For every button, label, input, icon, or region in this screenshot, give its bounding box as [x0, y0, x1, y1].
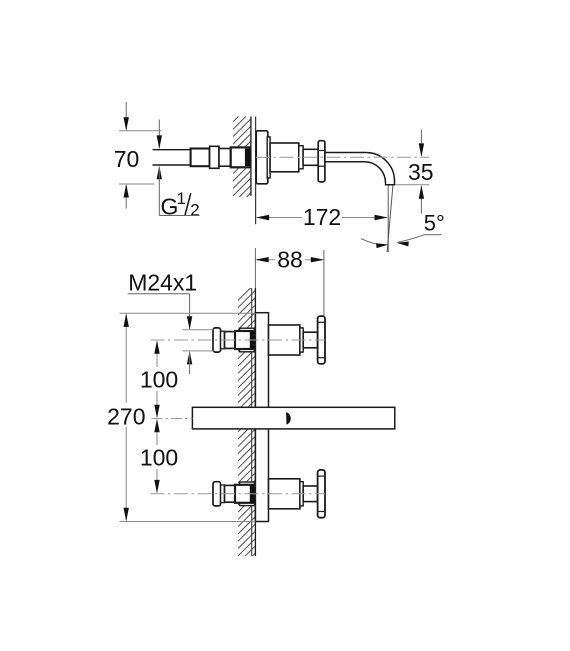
collar — [210, 146, 219, 168]
centerline spout bar — [152, 418, 193, 420]
dimension 35 arrows — [420, 130, 422, 156]
centerline bottom valve — [151, 493, 326, 495]
valve stem right — [303, 486, 317, 502]
dimension 70 extension lines — [119, 130, 162, 132]
100 upper dimension — [156, 342, 158, 368]
centerline top valve — [151, 339, 326, 341]
dimension 172 line — [257, 217, 302, 219]
spout body cylinder — [270, 143, 299, 172]
svg-text:270: 270 — [107, 404, 145, 430]
valve olive flange — [213, 482, 221, 506]
valve stub washer cy=493.8 — [240, 482, 255, 506]
valve wall nut — [235, 331, 252, 349]
M24 arrows — [187, 316, 192, 330]
spout outlet mark — [286, 412, 291, 424]
svg-text:35: 35 — [408, 159, 434, 185]
G1/2 dimension arrows — [158, 120, 160, 148]
dimension 88 ext lines — [254, 248, 256, 288]
water stream lines — [387, 186, 389, 252]
svg-text:100: 100 — [140, 445, 178, 471]
mounting plate (lower view) — [255, 313, 268, 522]
collar ring behind body — [267, 137, 270, 178]
svg-text:2: 2 — [190, 201, 199, 220]
wall line (upper view, back) — [250, 117, 252, 196]
svg-text:70: 70 — [114, 146, 140, 172]
cross handle (edge-on) — [318, 470, 325, 518]
dark washer at wall (upper view) — [245, 149, 250, 167]
valve stem left — [225, 332, 235, 349]
thread block — [191, 149, 210, 167]
valve dark washer at wall — [250, 331, 255, 349]
svg-text:172: 172 — [303, 204, 341, 230]
wall back line (lower view) — [251, 288, 253, 556]
270 extension lines — [120, 312, 256, 314]
valve stem left — [225, 485, 235, 502]
M24 stub extension lines — [183, 329, 214, 331]
svg-text:1: 1 — [177, 189, 186, 208]
centerline of spout — [256, 156, 429, 158]
spout bar (lower view) — [192, 407, 394, 429]
step ring — [299, 146, 303, 169]
dimension 70 arrows — [125, 102, 127, 130]
dimension 35 extension line bottom — [395, 184, 429, 186]
spout neck — [303, 149, 318, 165]
valve step — [221, 485, 225, 503]
svg-text:100: 100 — [140, 367, 178, 393]
svg-text:M24x1: M24x1 — [128, 270, 197, 296]
spout rosette flange — [318, 141, 325, 182]
valve step ring — [300, 482, 303, 506]
wall nut (upper view) — [231, 147, 251, 167]
valve dark washer at wall — [250, 485, 255, 503]
svg-text:88: 88 — [277, 247, 303, 273]
valve wall nut — [235, 485, 252, 503]
spout tube (curved) — [325, 153, 395, 185]
valve olive flange — [213, 328, 221, 352]
escutcheon plate (upper view) — [256, 131, 268, 184]
valve body cy=493.8 — [269, 479, 300, 509]
angle arc 5deg — [361, 239, 387, 245]
wall line (upper view, face) + 172 extension — [255, 117, 257, 225]
valve step — [221, 331, 225, 349]
supply pipe G1/2 (upper view) — [153, 150, 192, 164]
100 lower dimension — [156, 420, 158, 445]
valve stem right — [303, 332, 317, 348]
svg-text:5°: 5° — [424, 211, 445, 236]
270 dimension line + arrows — [125, 314, 127, 403]
cross handle (edge-on) — [318, 316, 325, 364]
valve stub washer cy=340.0 — [240, 328, 255, 352]
valve body cy=340.0 — [269, 325, 300, 355]
wall face line (lower view) — [254, 288, 256, 556]
spacer block — [219, 149, 231, 167]
dimension 88 line — [257, 259, 275, 261]
valve step ring — [300, 328, 303, 352]
